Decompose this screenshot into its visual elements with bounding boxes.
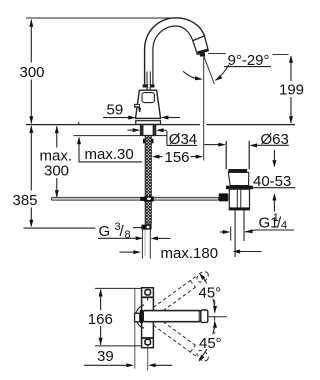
drain body bbox=[229, 189, 249, 210]
label G 3/8 bbox=[99, 221, 131, 241]
threaded rod upper bbox=[145, 136, 151, 197]
reference line spout top bbox=[26, 17, 178, 19]
dia34 arrows bbox=[128, 128, 167, 132]
center line below plate bbox=[147, 345, 149, 370]
side lever tab bbox=[134, 104, 141, 112]
straight position ref dashed bbox=[214, 300, 216, 334]
dimension 40-53 bbox=[251, 150, 296, 212]
wall reference line bbox=[134, 288, 136, 368]
spout end cap bbox=[201, 310, 208, 322]
166 ext top bbox=[95, 287, 142, 289]
aerator block bbox=[193, 36, 209, 57]
svg-text:max.30: max.30 bbox=[85, 146, 134, 163]
svg-text:300: 300 bbox=[44, 162, 69, 179]
collar bbox=[143, 84, 155, 87]
dimension 39 bbox=[84, 363, 172, 367]
pop-up knob bbox=[219, 193, 229, 201]
inlet dark piece bbox=[140, 310, 143, 323]
svg-text:45°: 45° bbox=[199, 335, 222, 352]
body inner window bbox=[142, 93, 154, 103]
svg-text:156: 156 bbox=[165, 149, 190, 166]
base grooves bbox=[136, 117, 160, 119]
stream centerline bbox=[203, 56, 205, 160]
svg-text:4: 4 bbox=[281, 220, 287, 232]
spout inner wall bbox=[153, 26, 193, 84]
label G1 1/4 bbox=[259, 212, 288, 232]
cross dash bbox=[207, 316, 227, 318]
svg-text:385: 385 bbox=[13, 192, 38, 209]
angle arc left bbox=[183, 71, 203, 81]
supply tube bbox=[142, 230, 150, 259]
plug taper bbox=[228, 172, 249, 185]
dimension 166 bbox=[99, 289, 103, 345]
rod junction bbox=[140, 196, 154, 201]
G1 1/4 arrows bbox=[220, 229, 294, 234]
spout bar bbox=[143, 311, 201, 322]
upper 45 arc bbox=[197, 272, 217, 314]
label dia34 box bbox=[167, 131, 197, 148]
supply nut bbox=[141, 225, 151, 230]
upper swivel spout dashed bbox=[153, 270, 210, 311]
label 9-29 bbox=[224, 52, 271, 69]
shank nut bbox=[143, 139, 154, 144]
drain plug cylinder bbox=[226, 141, 249, 170]
svg-text:max.180: max.180 bbox=[161, 245, 219, 262]
dimension 300 vertical line bbox=[29, 19, 33, 124]
counter line bbox=[26, 124, 200, 126]
dimension 385 bbox=[24, 125, 142, 228]
pivot housing arc bbox=[135, 305, 144, 328]
dimension max.180 bbox=[120, 250, 262, 255]
leader to angle label bbox=[208, 52, 226, 54]
angle arc right bbox=[214, 65, 229, 83]
mounting shank bbox=[141, 125, 156, 136]
dia63 arrows bbox=[204, 143, 289, 148]
lower 45 arc bbox=[197, 320, 217, 363]
dimension 59 bbox=[103, 102, 180, 120]
swing diagonal bbox=[204, 56, 214, 84]
inner stem lines bbox=[146, 72, 148, 85]
pop-up rod bbox=[51, 197, 219, 200]
label 45 lower bbox=[196, 335, 225, 352]
screw hole bottom bbox=[145, 339, 151, 344]
svg-text:300: 300 bbox=[20, 64, 45, 81]
G1 1/4 ext ticks bbox=[230, 227, 232, 241]
neck bbox=[146, 88, 148, 91]
svg-text:Ø63: Ø63 bbox=[261, 131, 289, 148]
threaded rod lower bbox=[145, 202, 151, 225]
base plate bbox=[136, 121, 161, 125]
dimension 199 bbox=[289, 55, 293, 124]
svg-text:45°: 45° bbox=[199, 285, 222, 302]
lower swivel spout dashed bbox=[153, 322, 210, 363]
inlet flange box bbox=[135, 313, 140, 322]
svg-text:8: 8 bbox=[125, 229, 131, 241]
166 ext bottom bbox=[95, 345, 142, 347]
leader continuation to 199 line bbox=[273, 54, 289, 56]
dimension 156 bbox=[152, 149, 203, 166]
spout outer wall bbox=[145, 18, 205, 85]
plug cap bbox=[228, 169, 247, 172]
svg-text:39: 39 bbox=[97, 348, 114, 365]
svg-text:Ø34: Ø34 bbox=[169, 131, 197, 148]
screw hole top bbox=[145, 290, 151, 295]
svg-text:59: 59 bbox=[107, 102, 124, 119]
svg-text:199: 199 bbox=[279, 82, 304, 99]
mounting plate bbox=[142, 288, 154, 348]
center dash below top tab bbox=[147, 297, 149, 300]
drain flange bbox=[226, 186, 253, 190]
label 45 upper bbox=[196, 284, 225, 302]
max30 leader bracket bbox=[77, 122, 142, 162]
svg-text:G: G bbox=[99, 223, 111, 240]
counter underside line bbox=[74, 135, 141, 137]
dimension max300 bbox=[55, 126, 59, 198]
faucet body bbox=[136, 90, 161, 118]
G3/8 arrows bbox=[98, 236, 171, 240]
svg-text:166: 166 bbox=[88, 311, 113, 328]
label max 300 bbox=[40, 148, 73, 180]
tailpipe bbox=[235, 210, 244, 257]
